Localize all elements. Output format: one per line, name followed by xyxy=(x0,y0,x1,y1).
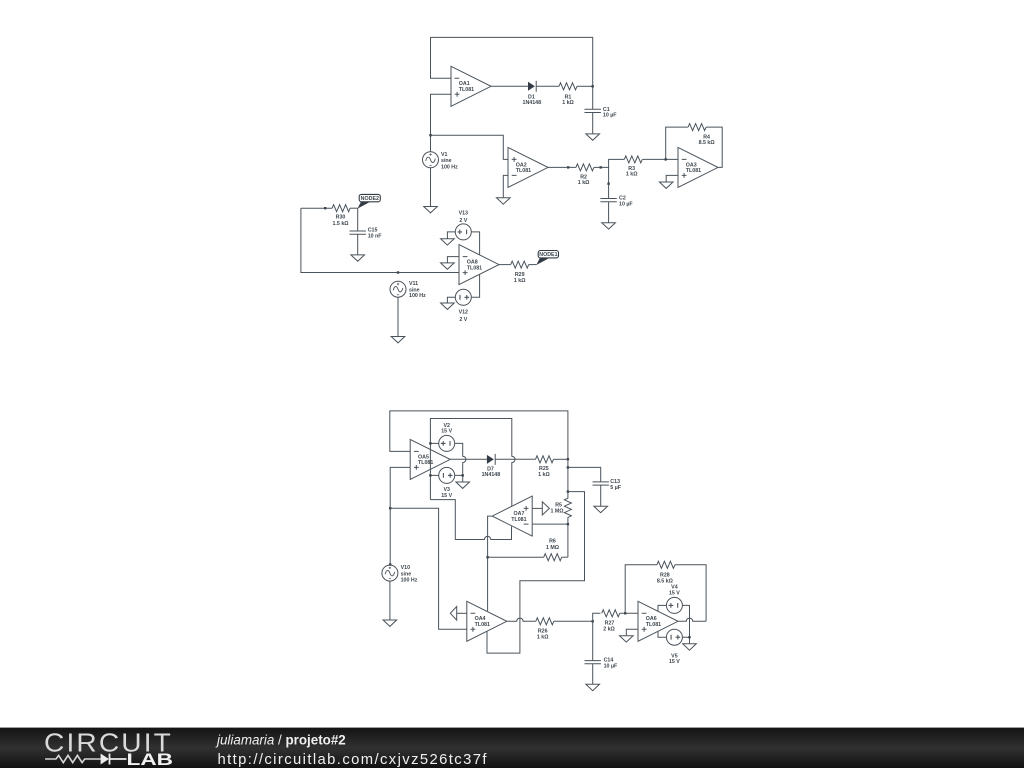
wire D1 to R1 xyxy=(536,85,559,87)
wire V12 to OA8 negative supply pin xyxy=(471,275,479,298)
wire C13 branch xyxy=(568,467,601,482)
junction R2 left xyxy=(567,166,569,168)
wire R6 left lead xyxy=(488,556,544,558)
junction R25 right node xyxy=(567,458,569,460)
voltage source V13 2 V xyxy=(455,211,471,240)
ground at OA8 inverting input xyxy=(441,263,455,269)
wire V13 minus to ground xyxy=(447,232,455,239)
wire V4 right down to V5 right xyxy=(683,605,690,637)
wire V3 right to ground xyxy=(455,475,463,482)
svg-text:LAB: LAB xyxy=(127,751,174,768)
wire OA6 output with hop over supply vertical xyxy=(678,618,706,621)
capacitor C1 xyxy=(585,107,618,119)
svg-text:100 Hz: 100 Hz xyxy=(409,293,426,299)
wire positive supply rail from OA5 top pin to OA7 top pin with hop over output xyxy=(430,419,515,507)
wire R5 bottom to OA7 inverting junction xyxy=(567,517,569,557)
wire branch to OA4 non-inverting input xyxy=(390,508,467,629)
op-amp OA1 xyxy=(451,66,491,106)
voltage source V3 15 V xyxy=(439,467,455,499)
svg-text:10 µF: 10 µF xyxy=(603,113,617,119)
wire V2 left to rail xyxy=(430,442,438,444)
resistor R25 xyxy=(536,456,554,478)
voltage source V12 2 V xyxy=(455,289,471,323)
wire V12 to ground xyxy=(447,297,455,303)
junction R30 left terminal xyxy=(324,207,326,209)
junction R26/R27/C14 xyxy=(592,620,594,622)
junction V2 left xyxy=(429,442,431,444)
wire OA5 non-inverting input down to V10 xyxy=(390,467,410,565)
ground below C14 xyxy=(586,684,600,690)
svg-text:juliamaria / projeto#2: juliamaria / projeto#2 xyxy=(215,732,346,747)
svg-text:2 V: 2 V xyxy=(459,218,467,224)
svg-text:1 MΩ: 1 MΩ xyxy=(550,509,564,515)
svg-text:10 µF: 10 µF xyxy=(604,664,618,670)
op-amp OA3 xyxy=(678,147,718,187)
wire OA4 inverting input to side ground xyxy=(457,612,467,614)
svg-text:15 V: 15 V xyxy=(669,659,680,665)
node flag NODE2 xyxy=(358,194,381,208)
ground at V13 xyxy=(441,239,455,245)
wire R29 to NODE1 xyxy=(529,264,537,266)
capacitor C13 xyxy=(593,479,622,491)
wire V2 right down to V3 right with hop over OA5 output xyxy=(455,443,466,475)
svg-text:10 µF: 10 µF xyxy=(619,201,633,207)
resistor R3 xyxy=(624,156,642,178)
ground below C13 xyxy=(594,506,608,512)
resistor R26 xyxy=(536,618,554,641)
voltage source V5 15 V xyxy=(666,629,682,665)
junction V3 left xyxy=(429,474,431,476)
wire OA5 output to D7 xyxy=(450,458,487,460)
ground sideways at OA4 inverting input xyxy=(450,607,456,621)
ground at OA6 non-inverting input xyxy=(620,636,634,642)
junction R3 right / R4 xyxy=(665,158,667,160)
wire R25 to node xyxy=(554,458,568,460)
wire V13 plus to OA8 positive supply pin xyxy=(471,232,479,255)
svg-text:TL081: TL081 xyxy=(467,265,482,271)
junction OA4 supply branch xyxy=(567,490,569,492)
svg-text:1 kΩ: 1 kΩ xyxy=(578,180,590,186)
svg-text:1 kΩ: 1 kΩ xyxy=(538,472,550,478)
wire negative supply chain from rail to OA7 bottom pin with hop over OA7 output xyxy=(430,500,511,540)
junction C2 top xyxy=(607,183,609,185)
wire OA1 feedback loop from node A to inverting input xyxy=(431,37,593,86)
svg-text:TL081: TL081 xyxy=(646,622,661,628)
diode D1 xyxy=(523,81,542,106)
wire C14 to ground xyxy=(592,664,594,685)
wire OA1 output to D1 xyxy=(491,85,528,87)
junction OA7 inverting / R5 / R6 xyxy=(567,523,569,525)
wire C1 to ground xyxy=(592,113,594,134)
svg-text:1 kΩ: 1 kΩ xyxy=(537,634,549,640)
svg-text:V10: V10 xyxy=(401,565,410,571)
ground below C2 xyxy=(602,223,616,229)
voltage source V4 15 V xyxy=(666,585,682,614)
wire R28 right down to OA6 output xyxy=(675,565,706,622)
svg-text:R30: R30 xyxy=(336,215,346,221)
junction V1 top xyxy=(429,134,431,136)
svg-text:15 V: 15 V xyxy=(669,590,680,596)
voltage source V1 sine 100 Hz xyxy=(423,152,459,171)
ground at OA3 non-inverting input xyxy=(659,182,673,188)
resistor R28 xyxy=(657,561,675,584)
wire V4 left to OA6 positive supply pin xyxy=(658,605,666,611)
resistor R2 xyxy=(576,164,594,186)
ground below V1 xyxy=(424,207,438,213)
wire R30 to NODE2 / C15 node xyxy=(350,207,358,209)
wire D7 to R25 xyxy=(495,458,535,460)
wire junction up to R27 xyxy=(593,613,601,621)
wire C2 node down to C2 xyxy=(608,167,610,198)
wire main vertical node chain down to R5 xyxy=(567,459,569,498)
capacitor C14 xyxy=(585,658,619,670)
svg-text:1N4148: 1N4148 xyxy=(482,472,501,478)
ground below V2/V3 xyxy=(456,482,470,488)
ground below V10 xyxy=(383,620,397,626)
ground below C1 xyxy=(586,134,600,140)
wire OA2 inverting input to ground xyxy=(503,175,508,197)
svg-text:TL081: TL081 xyxy=(516,168,531,174)
svg-text:2 kΩ: 2 kΩ xyxy=(603,626,615,632)
svg-text:15 V: 15 V xyxy=(441,493,452,499)
svg-text:sine: sine xyxy=(441,158,452,164)
wire OA2 output to R2 xyxy=(548,166,576,168)
wire OA6 non-inverting input to ground xyxy=(626,629,638,635)
svg-text:8.5 kΩ: 8.5 kΩ xyxy=(699,140,716,146)
svg-text:NODE1: NODE1 xyxy=(539,252,557,258)
wire V1 junction to OA2 non-inverting input xyxy=(431,135,509,159)
ground below V4/V5 xyxy=(683,644,697,650)
op-amp OA2 xyxy=(508,147,548,187)
wire branch to OA4 negative supply pin xyxy=(487,492,585,653)
junction V3 right xyxy=(462,474,464,476)
wire R2 to C2 node and up to R3 xyxy=(594,159,624,167)
capacitor C15 xyxy=(350,227,383,239)
svg-text:5 µF: 5 µF xyxy=(610,485,621,491)
junction R6 left xyxy=(486,556,488,558)
wire OA1 non-inverting input to V1 junction xyxy=(431,94,452,152)
resistor R6 xyxy=(544,539,562,561)
svg-text:NODE2: NODE2 xyxy=(361,196,379,202)
svg-text:100 Hz: 100 Hz xyxy=(441,164,458,170)
potentiometer R5 1 MOhm xyxy=(542,498,571,517)
junction OA5+/OA4+ branch xyxy=(389,507,391,509)
wire C15 to ground xyxy=(357,234,359,255)
wire node A to C1 xyxy=(592,86,594,109)
svg-text:1N4148: 1N4148 xyxy=(523,100,542,106)
svg-text:1.5 kΩ: 1.5 kΩ xyxy=(332,221,349,227)
wire R4 to OA3 output xyxy=(706,127,722,167)
wire V11 to ground xyxy=(397,297,399,336)
junction C13 branch xyxy=(567,466,569,468)
op-amp OA4 xyxy=(467,601,507,641)
wire OA7 output down to OA4 positive supply pin xyxy=(488,516,492,611)
resistor R30 xyxy=(332,205,350,227)
diode D7 xyxy=(482,454,501,478)
voltage source V11 sine 100 Hz xyxy=(390,281,426,299)
wire V1 to ground xyxy=(430,168,432,207)
voltage source V2 15 V xyxy=(439,423,455,452)
wire R1 to node A xyxy=(577,85,593,87)
svg-text:V13: V13 xyxy=(459,211,468,217)
svg-text:TL081: TL081 xyxy=(418,460,433,466)
op-amp OA5 xyxy=(410,439,450,479)
wire R28 feedback from OA6 inverting junction xyxy=(625,565,657,614)
resistor R1 xyxy=(559,83,577,106)
wire R26 to C14/R27 junction xyxy=(554,620,593,622)
wire C2 to ground xyxy=(608,202,610,223)
svg-text:100 Hz: 100 Hz xyxy=(401,577,418,583)
wire OA3 non-inverting input to ground xyxy=(666,175,678,182)
node flag NODE1 xyxy=(536,251,558,266)
wire OA4 output to R26 with hop xyxy=(507,618,536,621)
wire R30 left lead xyxy=(301,207,332,209)
svg-text:TL081: TL081 xyxy=(511,517,526,523)
junction node A xyxy=(592,85,594,87)
wire OA8 output to R29 xyxy=(499,264,511,266)
svg-text:V1: V1 xyxy=(441,152,448,158)
svg-text:1 MΩ: 1 MΩ xyxy=(546,545,560,551)
wire OA8 inverting input to ground xyxy=(447,257,459,263)
svg-text:2 V: 2 V xyxy=(459,317,467,323)
wire OA5 inverting input feedback loop to R25 right node xyxy=(390,411,568,459)
op-amp OA6 xyxy=(638,601,678,641)
junction V11 top xyxy=(397,271,399,273)
wire NODE2 node down to C15 xyxy=(357,208,359,231)
resistor R27 xyxy=(602,610,620,633)
svg-text:TL081: TL081 xyxy=(686,168,701,174)
svg-text:1 kΩ: 1 kΩ xyxy=(626,172,638,178)
op-amp OA8 xyxy=(459,245,499,285)
capacitor C2 xyxy=(600,196,633,208)
wire R3/R4 junction up to R4 xyxy=(666,127,688,159)
op-amp OA7 (mirrored) xyxy=(492,496,532,536)
svg-text:TL081: TL081 xyxy=(459,87,474,93)
svg-text:C15: C15 xyxy=(368,227,378,233)
resistor R4 xyxy=(688,124,715,147)
svg-text:http://circuitlab.com/cxjvz526: http://circuitlab.com/cxjvz526tc37f xyxy=(218,752,488,768)
junction V10 top xyxy=(389,563,391,565)
junction V4/V5 right xyxy=(688,636,690,638)
wire R27 to OA6 inverting input xyxy=(620,612,638,614)
wire OA7 inverting input to junction xyxy=(532,523,568,525)
junction R2 right xyxy=(600,166,602,168)
svg-text:TL081: TL081 xyxy=(475,622,490,628)
ground at OA2 inverting input xyxy=(497,198,511,204)
ground below V11 xyxy=(391,337,405,343)
wire V5 left to OA6 negative supply pin xyxy=(658,631,666,637)
junction R27/R28/OA6 xyxy=(624,612,626,614)
voltage source V10 sine 100 Hz xyxy=(382,565,418,583)
svg-text:10 nF: 10 nF xyxy=(368,234,383,240)
svg-text:1 kΩ: 1 kΩ xyxy=(562,100,574,106)
svg-text:V11: V11 xyxy=(409,281,418,287)
wire left L from R30 to V11 junction and OA8 non-inverting input xyxy=(301,208,459,272)
svg-text:V12: V12 xyxy=(459,310,468,316)
wire C13 to ground xyxy=(600,485,602,506)
wire V5 right to ground xyxy=(683,637,690,644)
wire C14 branch down xyxy=(592,621,594,660)
wire V3 left to rail xyxy=(430,474,438,476)
resistor R29 xyxy=(511,261,529,284)
wire R3 to OA3 inverting input xyxy=(642,158,678,160)
wire OA7 non-inverting input to R5 wiper xyxy=(532,507,542,509)
svg-text:1 kΩ: 1 kΩ xyxy=(514,278,526,284)
ground below C15 xyxy=(351,255,365,261)
svg-text:15 V: 15 V xyxy=(441,429,452,435)
svg-text:R6: R6 xyxy=(549,539,556,545)
wire R6 right lead up to junction xyxy=(562,556,568,558)
wire V10 to ground xyxy=(389,581,391,620)
ground at V12 xyxy=(441,303,455,309)
